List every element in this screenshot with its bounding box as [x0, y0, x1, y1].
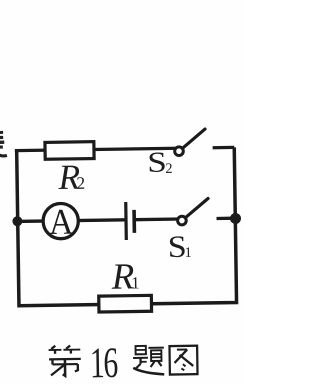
junction node right — [230, 213, 241, 224]
caption: character 第 — [49, 345, 81, 376]
wire top-right corner stub — [213, 146, 235, 150]
wire middle branch: node to battery — [16, 220, 126, 222]
wire top branch left segment — [15, 148, 178, 150]
switch S2 pivot circle — [175, 147, 184, 156]
wire middle-right stub to right rail — [216, 217, 235, 221]
label R1 — [110, 256, 140, 297]
switch S1 pivot circle — [178, 216, 187, 225]
svg-text:1: 1 — [184, 245, 191, 261]
junction node left — [12, 216, 22, 226]
svg-text:2: 2 — [165, 161, 172, 177]
switch S1 lever — [186, 198, 208, 216]
ammeter U1 circle — [43, 203, 79, 239]
wire middle branch: battery to switch S1 — [134, 217, 181, 221]
switch S2 lever — [183, 129, 205, 148]
caption: character 题 — [133, 346, 164, 375]
partial character fragment at left edge — [0, 132, 7, 156]
svg-text:16: 16 — [90, 340, 118, 384]
battery short plate (-) — [132, 210, 136, 233]
label R2 — [57, 157, 85, 197]
battery long plate (+) — [124, 202, 128, 240]
label S1 — [167, 229, 192, 264]
caption: character 图 — [169, 346, 197, 375]
resistor R1 — [99, 295, 152, 312]
label S2 — [147, 147, 173, 179]
resistor R2 — [45, 142, 94, 160]
svg-text:1: 1 — [131, 273, 140, 292]
svg-text:S: S — [147, 147, 167, 179]
svg-text:A: A — [49, 201, 74, 242]
wire outer loop: left rail, bottom wire, right rail — [17, 147, 237, 305]
svg-text:2: 2 — [76, 173, 85, 193]
